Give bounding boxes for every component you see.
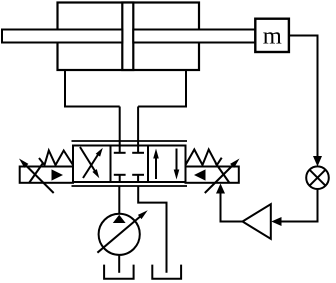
right return spring bbox=[186, 150, 222, 166]
amplifier triangle bbox=[243, 204, 271, 239]
proportional valve upper parallel line bbox=[72, 140, 188, 142]
proportional valve lower parallel line bbox=[72, 185, 188, 187]
wire: amplifier to solenoid bbox=[216, 184, 243, 222]
variable displacement pump bbox=[97, 210, 147, 255]
summing junction (position transducer) bbox=[306, 166, 329, 189]
left tank bbox=[104, 265, 134, 279]
cylinder body bbox=[58, 3, 200, 71]
mounting bracket below cylinder bbox=[65, 70, 186, 107]
right proportional solenoid bbox=[186, 159, 240, 194]
left return spring bbox=[39, 151, 73, 166]
svg-text:m: m bbox=[263, 23, 282, 50]
valve body (three positions) bbox=[73, 146, 186, 183]
line T: valve to tank bbox=[138, 186, 166, 273]
line B: bracket to valve bbox=[137, 107, 139, 147]
mass block m bbox=[255, 19, 289, 52]
center position: blocked ports bbox=[114, 146, 144, 183]
piston bbox=[122, 3, 133, 71]
pump suction line bbox=[118, 255, 120, 273]
piston rod (double-ended) bbox=[2, 30, 255, 43]
left proportional solenoid bbox=[19, 159, 73, 194]
line A: bracket to valve bbox=[119, 107, 121, 147]
right tank bbox=[152, 265, 181, 279]
wire: summing junction to amplifier bbox=[271, 189, 317, 226]
right position: parallel flow arrows bbox=[153, 149, 179, 180]
line P: valve to pump bbox=[118, 186, 120, 214]
left position: crossed flow arrows bbox=[80, 147, 103, 178]
wire: mass to summing junction bbox=[289, 36, 322, 167]
